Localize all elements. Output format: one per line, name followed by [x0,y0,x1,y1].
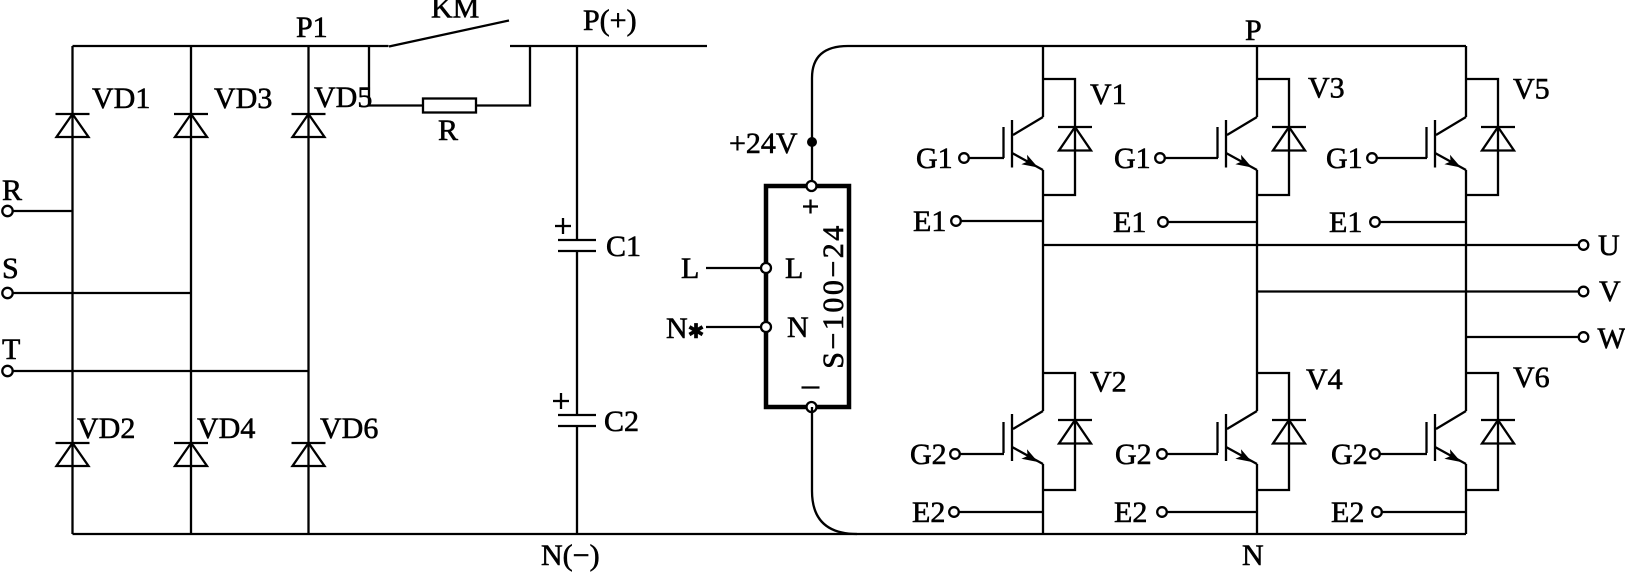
svg-text:V2: V2 [1090,366,1127,399]
module top terminal [807,181,817,191]
emitter E1 leg2 [1113,206,1257,239]
svg-text:V1: V1 [1090,78,1127,111]
output W [1466,322,1625,355]
svg-text:E2: E2 [1114,496,1147,529]
wire +24V feed [812,46,848,186]
terminal L [681,252,771,285]
wire DC link [576,46,578,240]
wire top rail P(+) segment [510,45,707,47]
module bottom terminal [807,402,817,412]
terminal S [2,252,191,298]
svg-text:VD2: VD2 [77,412,135,445]
gate G1 leg1 [916,142,1004,175]
IGBT V1 [1004,46,1127,411]
svg-text:E1: E1 [913,205,946,238]
svg-text:R: R [438,114,458,147]
freewheel diode of V3 [1257,79,1306,195]
wire bypass left vertical [369,46,423,106]
gate G1 leg2 [1114,142,1218,175]
svg-text:N: N [787,311,809,344]
wire module to N rail [812,407,857,534]
IGBT V5 [1427,46,1550,411]
svg-text:V6: V6 [1513,361,1550,394]
svg-text:N(−): N(−) [541,539,600,572]
gate G2 leg1 [910,438,1004,471]
node +24V junction [807,137,817,147]
diode VD6 [292,412,379,466]
svg-text:W: W [1598,322,1625,355]
output V [1257,275,1621,308]
emitter E1 leg1 [913,205,1043,238]
svg-text:P: P [1245,14,1262,47]
svg-text:P1: P1 [296,11,328,44]
svg-text:G1: G1 [916,142,953,175]
svg-text:P(+): P(+) [583,4,637,37]
svg-text:E1: E1 [1113,206,1146,239]
emitter E2 leg2 [1114,496,1257,529]
svg-text:VD6: VD6 [320,412,378,445]
emitter E2 leg1 [912,496,1043,529]
terminal T [2,333,309,376]
resistor R [423,99,476,113]
svg-text:T: T [2,333,20,366]
capacitor C2 [553,393,639,438]
diode VD3 [174,82,272,137]
svg-text:U: U [1598,229,1620,262]
svg-text:VD1: VD1 [92,82,150,115]
diode VD5 [292,81,373,137]
IGBT V3 [1218,46,1345,411]
emitter E2 leg3 [1331,496,1466,529]
svg-text:G1: G1 [1326,142,1363,175]
svg-text:V: V [1599,275,1621,308]
svg-text:S: S [2,252,19,285]
wire top rail left P1 segment [73,45,389,47]
gate G2 leg3 [1331,438,1427,471]
svg-text:C1: C1 [606,230,641,263]
wire bottom rail [73,533,1467,535]
svg-text:V4: V4 [1306,363,1343,396]
svg-text:G2: G2 [910,438,947,471]
wire column 3 [307,46,309,534]
diode VD4 [174,412,255,466]
svg-text:G1: G1 [1114,142,1151,175]
wire inverter top rail [848,45,1466,47]
wire column 1 [71,46,73,534]
svg-text:R: R [2,174,22,207]
gate G1 leg3 [1326,142,1427,175]
IGBT V2 [1004,366,1127,535]
svg-text:KM: KM [431,0,479,25]
svg-text:L: L [681,252,699,285]
freewheel diode of V2 [1043,373,1092,490]
svg-text:S−100−24: S−100−24 [817,223,850,369]
freewheel diode of V5 [1466,79,1515,195]
svg-text:VD4: VD4 [197,412,255,445]
emitter E1 leg3 [1329,206,1466,239]
power supply module S-100-24 [766,186,850,407]
svg-text:V3: V3 [1308,72,1345,105]
diode VD2 [56,412,136,466]
gate G2 leg2 [1115,438,1218,471]
freewheel diode of V1 [1043,79,1092,195]
svg-text:G2: G2 [1331,438,1368,471]
svg-text:G2: G2 [1115,438,1152,471]
svg-text:C2: C2 [604,405,639,438]
svg-text:L: L [785,252,803,285]
diode VD1 [56,82,151,137]
svg-text:E2: E2 [912,496,945,529]
terminal N* [666,312,771,345]
IGBT V4 [1218,363,1343,534]
capacitor C1 [555,218,641,263]
wire column 2 [190,46,192,534]
svg-text:VD5: VD5 [314,81,372,114]
contactor KM [389,21,509,47]
wire bypass right [476,46,530,106]
IGBT V6 [1427,361,1550,534]
svg-text:+24V: +24V [729,127,798,160]
freewheel diode of V6 [1466,373,1515,490]
terminal R [2,174,73,216]
svg-text:E1: E1 [1329,206,1362,239]
output U [1043,229,1620,262]
svg-text:V5: V5 [1513,73,1550,106]
svg-text:N: N [1242,539,1264,572]
freewheel diode of V4 [1257,373,1306,490]
svg-text:E2: E2 [1331,496,1364,529]
svg-text:VD3: VD3 [214,82,272,115]
